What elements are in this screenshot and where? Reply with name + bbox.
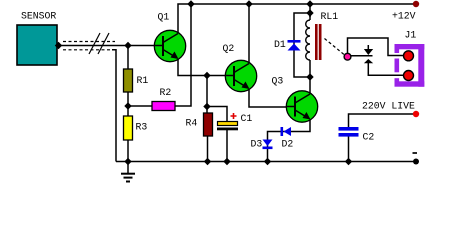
svg-text:R3: R3 — [136, 122, 148, 133]
svg-text:D1: D1 — [274, 39, 286, 50]
svg-text:C1: C1 — [241, 113, 253, 124]
svg-text:220V LIVE: 220V LIVE — [362, 101, 415, 112]
svg-text:Q2: Q2 — [223, 43, 235, 54]
svg-text:Q3: Q3 — [272, 75, 284, 86]
svg-text:D2: D2 — [282, 139, 294, 150]
svg-text:R1: R1 — [137, 75, 149, 86]
svg-text:Q1: Q1 — [158, 11, 170, 22]
svg-text:R2: R2 — [160, 87, 172, 98]
svg-text:RL1: RL1 — [321, 11, 339, 22]
svg-text:R4: R4 — [186, 118, 198, 129]
svg-text:J1: J1 — [405, 30, 417, 41]
svg-text:SENSOR: SENSOR — [21, 11, 56, 22]
svg-text:C2: C2 — [363, 132, 375, 143]
svg-text:+12V: +12V — [392, 11, 416, 22]
svg-text:D3: D3 — [251, 139, 263, 150]
